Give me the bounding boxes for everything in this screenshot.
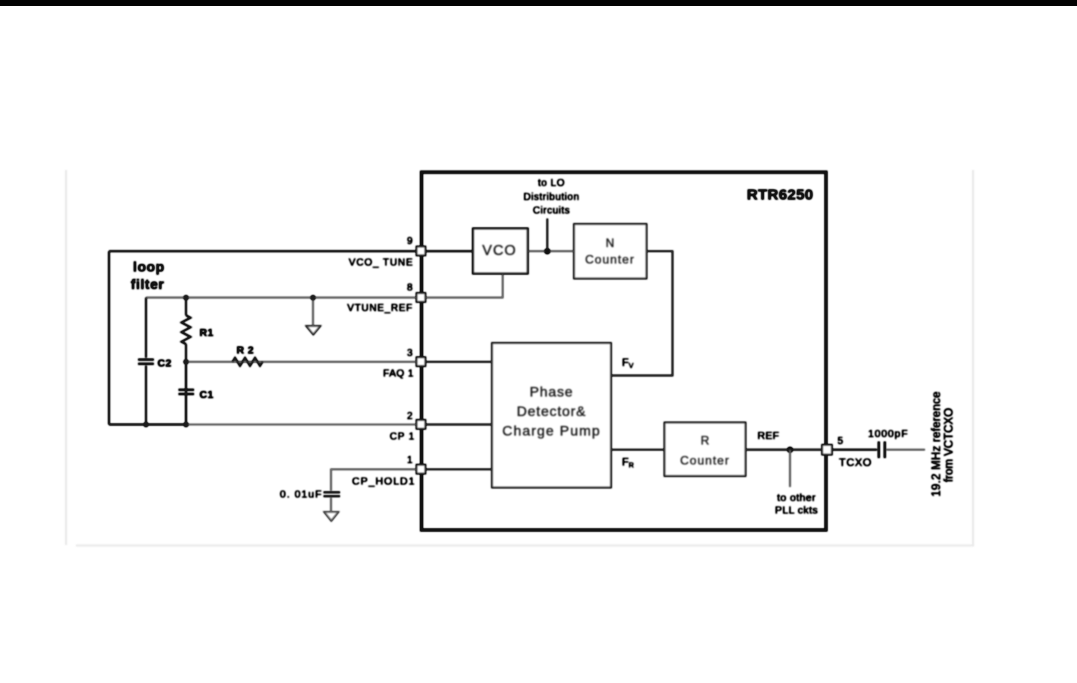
pin 9 <box>417 247 426 256</box>
wire pin5 to 1000pF cap <box>832 449 877 451</box>
wire R1 branch vertical <box>185 298 187 425</box>
ground (0.01uF) <box>324 512 338 521</box>
wire VTUNE_REF row (grey) <box>146 297 421 299</box>
wire 1000pF output (grey) <box>887 449 926 451</box>
ground (VTUNE_REF) <box>312 298 314 326</box>
resistor R2 <box>233 358 263 366</box>
svg-text:Circuits: Circuits <box>533 206 570 217</box>
wire C2 branch vertical <box>145 298 147 425</box>
svg-text:2: 2 <box>407 411 413 422</box>
svg-text:loop: loop <box>133 258 165 274</box>
svg-text:filter: filter <box>131 276 165 292</box>
wire loop filter bottom edge / CP1 row <box>109 424 186 426</box>
resistor R1 <box>182 315 191 344</box>
junction node LO tap <box>544 248 550 254</box>
svg-text:8: 8 <box>407 282 413 293</box>
block R Counter <box>665 423 746 477</box>
svg-text:0. 01uF: 0. 01uF <box>280 489 323 501</box>
junction node to other PLL ckts <box>787 447 793 453</box>
svg-text:CP 1: CP 1 <box>390 431 415 442</box>
svg-text:Charge Pump: Charge Pump <box>502 422 600 438</box>
pin 1 <box>417 465 426 474</box>
svg-text:VTUNE_REF: VTUNE_REF <box>347 303 413 314</box>
top black bar <box>0 0 1077 6</box>
svg-text:RTR6250: RTR6250 <box>747 187 814 204</box>
pin 8 <box>417 293 426 302</box>
svg-text:3: 3 <box>407 348 413 359</box>
wire N Counter feedback to phase detector Fv <box>611 251 673 375</box>
svg-text:Phase: Phase <box>530 383 574 399</box>
svg-text:5: 5 <box>838 436 844 447</box>
wire R Counter to pin 5 (REF) <box>746 449 822 451</box>
svg-text:R1: R1 <box>200 327 214 339</box>
pin 2 <box>417 420 426 429</box>
capacitor 0.01uF <box>324 492 341 496</box>
svg-text:Distribution: Distribution <box>523 192 579 203</box>
capacitor C1 <box>185 362 187 388</box>
svg-text:REF: REF <box>758 430 780 442</box>
wire to other PLL ckts drop (grey) <box>789 450 791 487</box>
wire phase detector Fr to R Counter <box>611 449 665 451</box>
wire VCO out to N Counter (grey) <box>528 250 574 252</box>
svg-text:C2: C2 <box>158 357 172 369</box>
svg-text:19.2 MHz reference: 19.2 MHz reference <box>931 391 943 497</box>
svg-text:R 2: R 2 <box>237 344 255 356</box>
junction node on VTUNE_REF at ground <box>310 295 315 300</box>
block Phase Detector & Charge Pump <box>492 343 611 488</box>
svg-text:Counter: Counter <box>680 454 730 468</box>
svg-text:Counter: Counter <box>585 252 635 266</box>
svg-text:VCO: VCO <box>482 243 516 259</box>
svg-text:CP_HOLD1: CP_HOLD1 <box>352 475 415 487</box>
svg-text:PLL ckts: PLL ckts <box>775 505 818 517</box>
svg-text:from VCTCXO: from VCTCXO <box>943 408 955 482</box>
wire to LO distribution drop <box>546 219 548 252</box>
pin 3 <box>417 357 426 366</box>
junction node on VTUNE_REF at R1 <box>183 295 188 300</box>
wire pin1 row to 0.01uF cap (grey) <box>331 469 421 491</box>
junction node C2 bottom <box>143 422 148 427</box>
block N Counter <box>574 224 647 279</box>
wire FAQ1 row (grey) <box>186 361 421 363</box>
svg-text:VCO_ TUNE: VCO_ TUNE <box>349 257 414 268</box>
svg-text:Detector&: Detector& <box>517 403 586 419</box>
block VCO <box>473 229 528 274</box>
pin 5 <box>822 445 832 455</box>
svg-text:TCXO: TCXO <box>839 457 872 469</box>
svg-text:1000pF: 1000pF <box>868 428 908 440</box>
capacitor 1000pF <box>879 442 885 459</box>
svg-text:R: R <box>701 434 710 448</box>
svg-text:FAQ 1: FAQ 1 <box>383 369 414 380</box>
svg-text:to LO: to LO <box>538 178 565 189</box>
svg-text:1: 1 <box>407 455 413 466</box>
faint figure frame <box>66 170 974 546</box>
wire cap to ground <box>330 498 332 512</box>
wires pins 3,2,1 into phase detector <box>421 361 492 363</box>
svg-text:9: 9 <box>407 236 413 247</box>
wire loop filter left edge <box>108 251 110 424</box>
junction node C1 bottom <box>183 422 188 427</box>
wire pin8 to VCO bottom (grey) <box>421 274 503 298</box>
svg-text:C1: C1 <box>200 389 214 401</box>
svg-text:N: N <box>606 236 615 250</box>
wire VCO_TUNE row (loop filter top edge to pin 9 and into VCO) <box>109 250 473 252</box>
junction node R1/R2/C1 <box>183 359 188 364</box>
chip outline U1 RTR6250 <box>422 172 827 530</box>
svg-text:to other: to other <box>777 492 816 504</box>
capacitor C2 <box>138 360 154 364</box>
